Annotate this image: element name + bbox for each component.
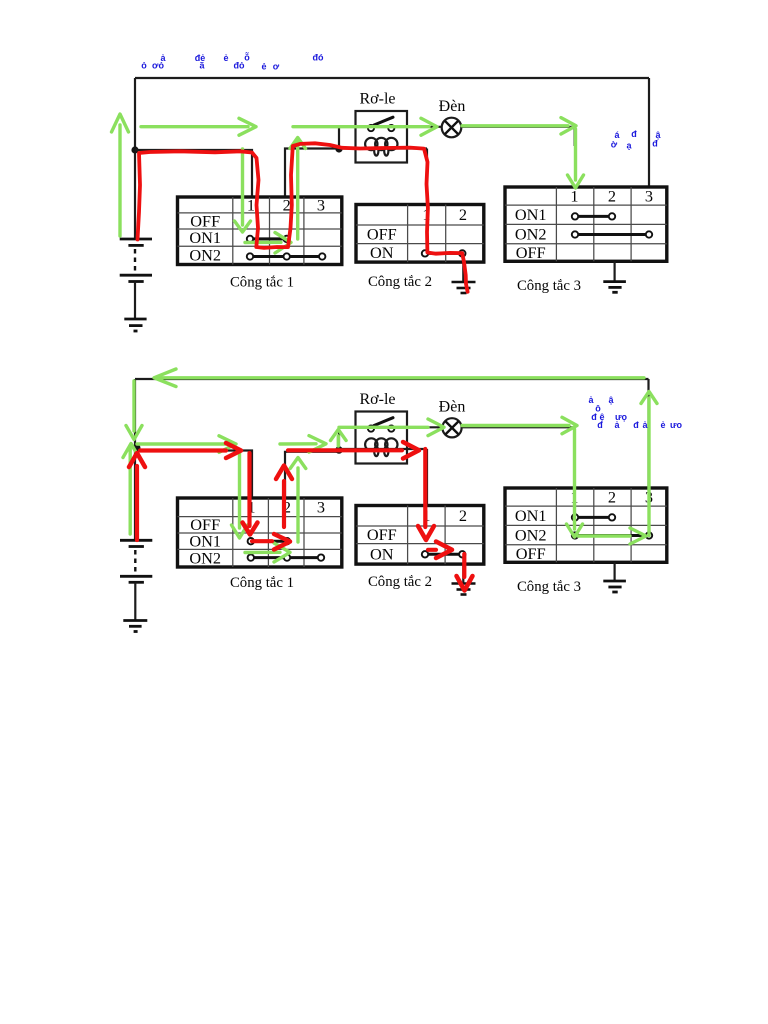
relay switch contact left [368, 426, 374, 432]
Cong tac 1 lower ON2 connector bar [251, 556, 321, 559]
Cong tac 3 grid columns [556, 187, 631, 261]
Cong tac 2 lower ON contact pin 1 [422, 551, 428, 557]
Cong tac 3 ON1 contact pin 2 [609, 213, 615, 219]
svg-text:3: 3 [645, 186, 653, 205]
svg-text:Rơ-le: Rơ-le [359, 391, 395, 408]
node B junction before relay [335, 145, 342, 152]
svg-text:á: á [614, 130, 620, 140]
switch table Cong tac 1 lower border [178, 498, 342, 567]
Cong tac 1 ON2 contact pin 2 [284, 253, 290, 259]
Cong tac 1 lower ON2 contact pin 3 [318, 554, 324, 560]
svg-text:đ: đ [633, 420, 639, 430]
green current arrow right along Cong tac 1 ON1 [245, 233, 291, 254]
wire Cong tac 2 pin 2 to ground [462, 262, 464, 282]
wire through relay coil [341, 448, 427, 450]
Cong tac 3 lower ON1 connector bar [575, 516, 612, 519]
wire branch up to relay switch [339, 427, 368, 450]
wire Cong tac 2 lower pin 2 to ground [462, 564, 464, 583]
green current arrow up at battery [112, 114, 129, 236]
red current arrowhead right before pin 1 [226, 443, 241, 458]
Cong tac 3 ON2 contact pin 3 [646, 231, 652, 237]
lamp L2 circle [442, 418, 461, 437]
battery ground bar 1 [124, 318, 146, 321]
relay U1 box [356, 111, 408, 163]
relay coil loop 3 [385, 438, 397, 450]
ground Cong tac 3 bar 3 [612, 291, 617, 294]
ground Cong tac 3 bar 2 [608, 286, 621, 289]
Cong tac 3 ON1 contact pin 1 [572, 213, 578, 219]
red current line down to Cong tac 2 [423, 449, 427, 527]
svg-text:ơ: ơ [273, 62, 280, 72]
relay coil loop 2 [375, 438, 387, 450]
switch table Cong tac 1 border [178, 197, 342, 265]
battery B2 stem [134, 582, 136, 620]
battery B1 plate short 2 [128, 280, 143, 283]
wire top horizontal [135, 77, 649, 79]
svg-text:đ: đ [631, 129, 637, 139]
battery B2 plate long 1 [120, 539, 152, 542]
relay coil loop 3 [385, 138, 397, 150]
green current arrow down left vertical [126, 381, 142, 440]
Cong tac 3 ON2 connector bar [575, 233, 649, 236]
Cong tac 3 lower ON2 contact pin 3 [646, 532, 652, 538]
green current arrow up Cong tac 3 lower pin 3 [641, 392, 657, 536]
green current arrow right along ON2 row [578, 528, 646, 544]
Cong tac 1 ON1 contact pin 2 [284, 236, 290, 242]
wire Cong tac 3 lower ground stem [613, 562, 615, 581]
svg-text:ạ: ạ [626, 141, 632, 151]
svg-text:ỏ: ỏ [141, 61, 147, 71]
green current arrow up from lower Cong tac 1 pin 2 [290, 458, 306, 543]
Cong tac 2 lower grid rows [356, 526, 484, 544]
svg-text:2: 2 [459, 506, 467, 525]
svg-text:ON: ON [370, 243, 394, 262]
relay coil tail 1 [374, 146, 378, 155]
wire lamp to Cong tac 3 pin 1 [461, 127, 575, 146]
battery ground 2 bar 3 [134, 630, 138, 633]
battery B2 plate short 2 [129, 581, 144, 584]
ground Cong tac 3 bar 1 [603, 280, 626, 283]
red current arrowhead right at relay exit [403, 442, 419, 459]
Cong tac 3 ON2 contact pin 1 [572, 231, 578, 237]
Cong tac 2 ON contact pin 2 [459, 250, 465, 256]
red current line battery up [135, 466, 139, 540]
red current path battery through relay coil to ground [138, 143, 468, 291]
Cong tac 2 grid rows [356, 225, 484, 244]
Cong tac 1 lower ON1 contact pin 1 [248, 538, 254, 544]
battery ground bar 2 [129, 324, 143, 327]
wire relay to Cong tac 2 pin 1 [426, 449, 428, 507]
svg-text:Đèn: Đèn [439, 399, 466, 416]
battery B1 plate short 1 [128, 244, 143, 247]
green current arrow right along lower ON1 row [245, 543, 290, 562]
battery B2 plate long 2 [120, 575, 152, 578]
battery B1 dashed middle [134, 249, 136, 272]
Cong tac 2 lower ON connector bar [425, 553, 462, 556]
wire relay switch to lamp [394, 426, 443, 428]
battery B2 dashed middle [134, 550, 136, 573]
red current line to relay coil [288, 448, 402, 452]
Cong tac 3 lower ON1 contact pin 2 [609, 514, 615, 520]
relay U2 box [356, 412, 408, 464]
wire Cong tac 3 ground stem [613, 261, 615, 281]
red current arrowhead down at ground [457, 576, 473, 591]
svg-text:ON2: ON2 [189, 245, 221, 264]
relay switch lever [374, 418, 393, 426]
svg-text:OFF: OFF [367, 225, 397, 244]
switch table Cong tac 3 border [505, 187, 667, 261]
red current arrowhead down into Cong tac 2 ON [418, 526, 434, 540]
Cong tac 1 lower ON2 contact pin 2 [284, 554, 290, 560]
wire Cong tac 1 pin 2 riser [285, 149, 339, 199]
relay switch contact right [388, 125, 394, 131]
svg-text:đ: đ [652, 139, 658, 149]
switch table Cong tac 3 lower border [505, 488, 667, 562]
battery ground bar 3 [134, 330, 138, 333]
relay coil loop 2 [375, 138, 387, 150]
Cong tac 3 ON1 connector bar [575, 215, 612, 218]
ground Cong tac 2 bar 1 [452, 281, 476, 284]
svg-text:Công tắc 1: Công tắc 1 [230, 575, 294, 591]
green current arrow before lamp [428, 419, 444, 436]
battery B1 plate long 1 [120, 238, 152, 241]
ground Cong tac 2 lower bar 1 [452, 582, 476, 585]
green current arrow down into Cong tac 3 pin 1 [568, 129, 584, 188]
green current arrow right from node A2 [137, 436, 236, 453]
red current arrowhead up from pin 2 [276, 466, 292, 480]
relay coil loop 1 [365, 438, 377, 450]
svg-text:1: 1 [247, 195, 255, 214]
svg-text:2: 2 [608, 488, 616, 507]
lamp L2 cross [445, 421, 458, 434]
green current arrow right toward relay [280, 436, 326, 453]
svg-text:ON2: ON2 [515, 526, 547, 545]
green current arrow right from node A [141, 118, 256, 135]
red current line down Cong tac 1 pin 1 [247, 453, 251, 526]
wire lamp to Cong tac 3 pin 1 [462, 427, 575, 444]
relay coil tail 2 [384, 146, 388, 155]
svg-text:đó: đó [313, 53, 324, 63]
Cong tac 1 ON2 connector bar [250, 255, 322, 258]
wire left vertical to battery [134, 78, 136, 239]
relay switch contact right [388, 426, 394, 432]
Cong tac 3 lower ON2 connector bar [575, 534, 649, 537]
svg-text:OFF: OFF [516, 243, 546, 262]
ground Cong tac 3 lower bar 1 [603, 580, 626, 583]
relay switch contact left [368, 125, 374, 131]
svg-text:OFF: OFF [516, 544, 546, 563]
ground Cong tac 2 lower bar 3 [461, 593, 467, 596]
wire relay to Cong tac 2 pin 1 [426, 149, 428, 207]
green current arrow down into Cong tac 1 lower pin 1 [232, 452, 248, 538]
Cong tac 2 ON connector bar [425, 252, 462, 255]
Cong tac 1 grid columns [233, 197, 304, 265]
green current arrow up from Cong tac 1 pin 2 [290, 138, 306, 240]
ground Cong tac 2 bar 3 [461, 292, 467, 295]
node A2 junction battery branch [133, 444, 141, 452]
Cong tac 1 lower ON1 contact pin 2 [284, 538, 290, 544]
red current line along ON1 row [252, 539, 272, 543]
red current arrowhead right ON1 [274, 534, 290, 550]
svg-text:Công tắc 3: Công tắc 3 [517, 278, 581, 294]
svg-text:2: 2 [459, 205, 467, 224]
Cong tac 1 lower grid columns [233, 498, 304, 567]
Cong tac 1 lower ON1 connector bar [251, 540, 287, 543]
battery ground 2 bar 1 [123, 619, 147, 622]
svg-text:ON: ON [370, 544, 394, 563]
svg-text:ON1: ON1 [189, 228, 221, 247]
svg-text:ON2: ON2 [515, 224, 547, 243]
relay coil tail 2 [384, 447, 388, 456]
red current arrowhead right ON row [436, 542, 452, 559]
wire left vertical to battery [134, 379, 136, 540]
Cong tac 3 lower grid rows [505, 506, 667, 545]
svg-text:ả: ả [160, 53, 166, 63]
Cong tac 1 lower ON2 contact pin 1 [248, 554, 254, 560]
switch table Cong tac 2 lower border [356, 506, 484, 565]
green current arrow down into Cong tac 1 pin 1 [235, 149, 251, 232]
svg-text:3: 3 [317, 195, 325, 214]
Cong tac 3 lower ON1 contact pin 1 [572, 514, 578, 520]
red current line down to ground 2 [462, 554, 466, 577]
Cong tac 3 grid rows [505, 205, 667, 244]
Cong tac 2 grid columns [408, 205, 446, 263]
wire through relay coil [341, 147, 427, 149]
battery ground 2 bar 2 [129, 625, 142, 628]
green current arrow right through relay switch [293, 118, 437, 135]
svg-text:OFF: OFF [367, 525, 397, 544]
ground Cong tac 2 bar 2 [457, 287, 471, 290]
svg-text:2: 2 [608, 186, 616, 205]
Cong tac 3 lower grid columns [556, 488, 631, 562]
Cong tac 3 lower ON2 contact pin 1 [572, 532, 578, 538]
svg-text:Công tắc 3: Công tắc 3 [517, 579, 581, 595]
svg-text:ON1: ON1 [515, 205, 547, 224]
node B2 junction before relay [335, 446, 343, 454]
svg-text:ẻ: ẻ [223, 53, 228, 63]
green current line through relay switch [339, 426, 428, 429]
relay coil loop 1 [365, 138, 377, 150]
ground Cong tac 3 lower bar 3 [612, 591, 617, 594]
battery B1 plate long 2 [120, 274, 152, 277]
svg-text:ON1: ON1 [515, 506, 547, 525]
relay switch lever [374, 117, 393, 125]
battery B1 stem [134, 282, 136, 320]
wire right vertical into Cong tac 3 pin 3 [647, 379, 649, 489]
wire main horizontal to Cong tac 1 pin 1 [135, 451, 252, 500]
svg-text:ờ: ờ [611, 140, 618, 150]
svg-text:ậ: ậ [608, 395, 614, 405]
wire Cong tac 1 pin 2 riser [285, 452, 339, 499]
svg-text:Công tắc 2: Công tắc 2 [368, 274, 432, 290]
red current line along ON row [428, 548, 436, 552]
svg-text:ẻ: ẻ [261, 62, 266, 72]
Cong tac 1 ON2 contact pin 1 [247, 253, 253, 259]
Cong tac 1 grid rows [178, 213, 342, 246]
svg-text:Đèn: Đèn [439, 98, 466, 115]
wire main horizontal to Cong tac 1 pin 1 [135, 150, 252, 198]
red current arrowhead down into ON1 [243, 523, 258, 535]
green current arrow up into node A2 [123, 444, 139, 535]
svg-text:ả: ả [588, 395, 594, 405]
Cong tac 2 ON contact pin 1 [422, 250, 428, 256]
svg-text:Rơ-le: Rơ-le [359, 91, 395, 108]
red current line node A2 rightward [140, 448, 226, 452]
svg-text:ưo: ưo [670, 420, 683, 430]
Cong tac 1 ON1 contact pin 1 [247, 236, 253, 242]
Cong tac 1 ON2 contact pin 3 [319, 253, 325, 259]
battery B2 plate short 1 [129, 545, 144, 548]
wire relay switch to lamp [394, 126, 442, 128]
red current arrowhead up at node A2 [129, 453, 145, 467]
switch table Cong tac 2 border [356, 205, 484, 263]
green current arrow left on top wire [154, 369, 176, 387]
ground Cong tac 2 lower bar 2 [457, 588, 471, 591]
Cong tac 2 lower grid columns [408, 506, 446, 565]
lamp L1 cross [445, 121, 459, 135]
green current arrow down into Cong tac 3 lower pin 1 [567, 429, 583, 537]
Cong tac 2 lower ON contact pin 2 [459, 551, 465, 557]
svg-text:Công tắc 1: Công tắc 1 [230, 275, 294, 291]
svg-text:ỗ: ỗ [244, 53, 250, 63]
wire right vertical into Cong tac 3 pin 3 [648, 78, 650, 188]
green current arrow lamp to corner [462, 417, 577, 433]
green current line along top wire [160, 376, 644, 379]
Cong tac 1 lower grid rows [178, 517, 342, 550]
svg-text:ON2: ON2 [189, 549, 221, 568]
Cong tac 1 ON1 connector bar [250, 237, 287, 240]
wire top horizontal [135, 378, 649, 380]
green current arrow up relay riser [331, 430, 347, 447]
relay coil tail 1 [374, 447, 378, 456]
svg-text:đ: đ [597, 420, 603, 430]
svg-text:3: 3 [317, 498, 325, 517]
svg-text:ẻ: ẻ [660, 420, 665, 430]
node A junction battery branch [131, 146, 138, 153]
ground Cong tac 3 lower bar 2 [608, 586, 621, 589]
svg-text:Công tắc 2: Công tắc 2 [368, 574, 432, 590]
lamp L1 circle [442, 118, 462, 138]
red current line pin 2 riser [282, 481, 286, 527]
green current arrow lamp to corner [462, 118, 576, 134]
wire branch up to relay switch [339, 127, 368, 149]
